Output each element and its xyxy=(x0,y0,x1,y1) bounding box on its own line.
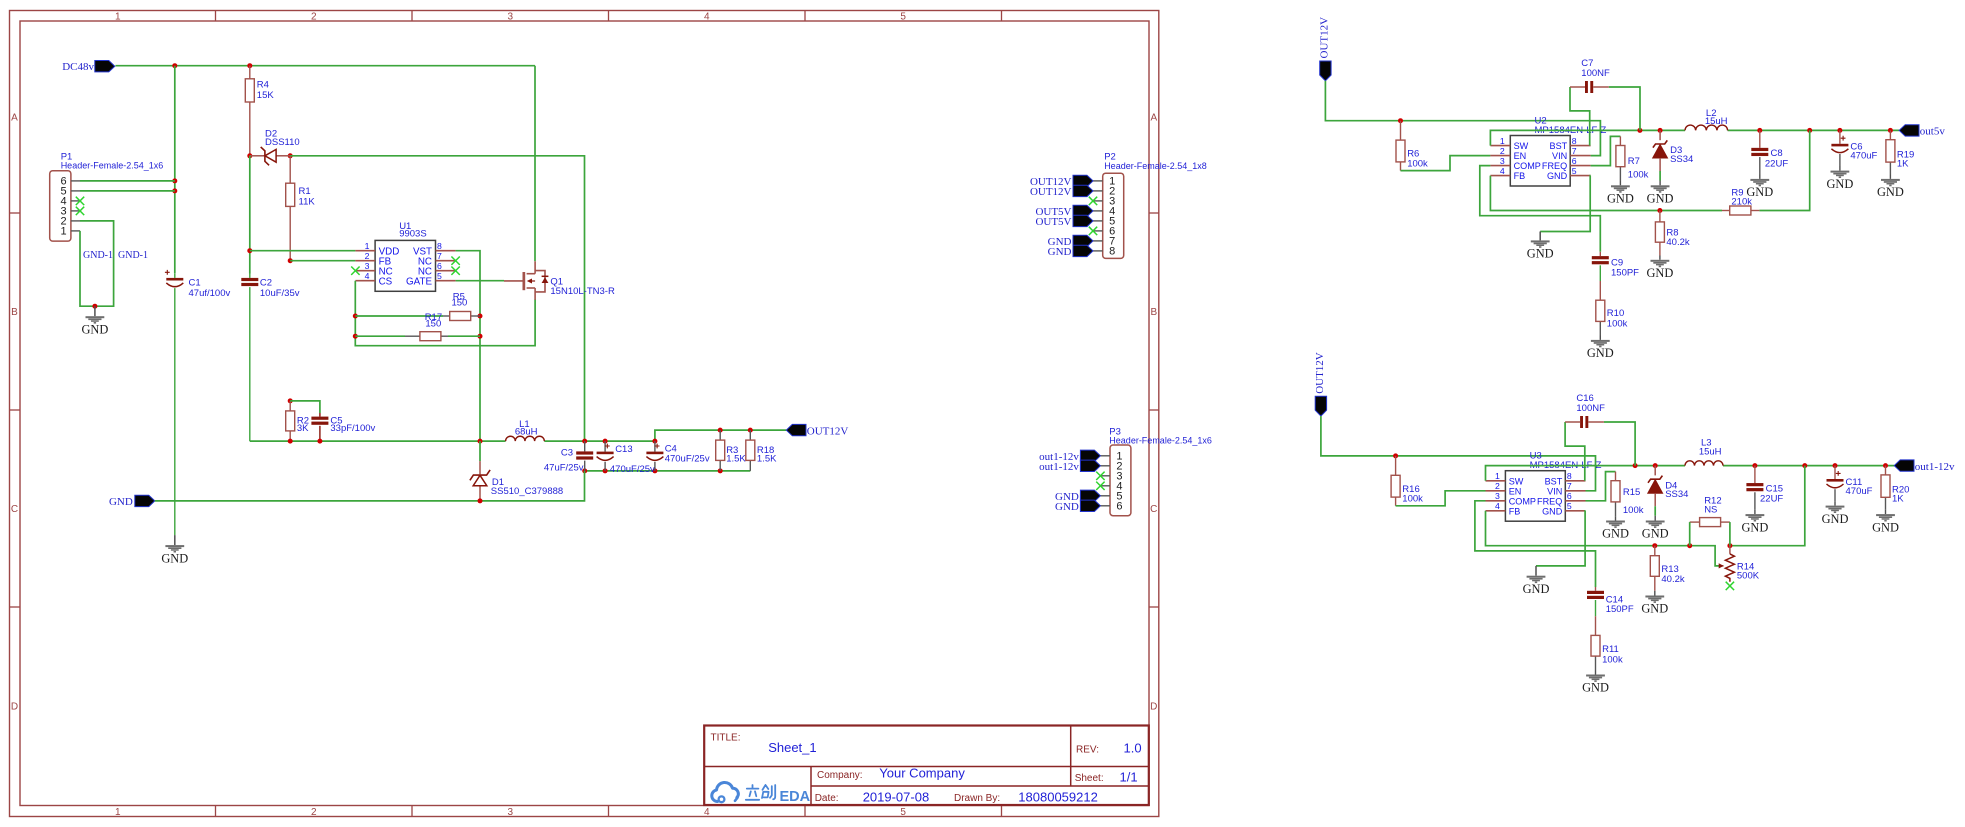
svg-text:DSS110: DSS110 xyxy=(265,137,300,148)
svg-text:18080059212: 18080059212 xyxy=(1018,789,1098,804)
junction R8 top / FB row xyxy=(1657,208,1662,213)
svg-text:47uf/100v: 47uf/100v xyxy=(189,288,231,299)
svg-text:33pF/100v: 33pF/100v xyxy=(330,423,375,434)
wire C5 top link xyxy=(290,401,320,413)
capacitor C3 xyxy=(544,441,593,473)
title block label Date: xyxy=(815,793,839,804)
wire U2 FB row xyxy=(1490,130,1809,210)
no-connect X on U1 pin 7 xyxy=(451,257,459,265)
net flag OUT12V pentagon xyxy=(786,424,806,435)
svg-text:GND: GND xyxy=(1607,192,1634,206)
svg-text:22UF: 22UF xyxy=(1760,494,1783,505)
svg-text:C2: C2 xyxy=(260,278,272,289)
net label out5v xyxy=(1920,126,1946,138)
ground under C15 xyxy=(1741,514,1768,534)
capacitor C11 xyxy=(1827,466,1873,502)
wire C7 left path to BST xyxy=(1570,87,1590,146)
wire C7 right path to SW xyxy=(1609,87,1640,130)
svg-text:1.5K: 1.5K xyxy=(757,454,777,465)
junction D1 anode / GND row xyxy=(478,498,483,503)
svg-text:500K: 500K xyxy=(1737,570,1760,581)
drawn-by value 18080059212 xyxy=(1018,789,1098,804)
svg-text:4: 4 xyxy=(1495,501,1500,511)
ground stem R7 xyxy=(1619,181,1621,185)
svg-text:1: 1 xyxy=(365,241,370,251)
svg-text:47uF/25v: 47uF/25v xyxy=(544,462,584,473)
svg-text:GND: GND xyxy=(1048,246,1072,258)
capacitor C4 xyxy=(646,441,709,471)
svg-text:GND: GND xyxy=(81,322,108,336)
wire U3 FB row right xyxy=(1730,466,1805,546)
ground stem R8 xyxy=(1659,256,1661,260)
wire C1 branch upper xyxy=(174,66,176,274)
svg-text:1: 1 xyxy=(1500,136,1505,146)
svg-text:R7: R7 xyxy=(1628,156,1640,167)
frame column ticks bottom xyxy=(216,806,1002,817)
net label OUT12V xyxy=(807,425,849,437)
resistor R12 (NS) xyxy=(1690,496,1730,527)
ground under C8 xyxy=(1746,179,1773,199)
junction VDD takeoff xyxy=(247,248,252,253)
resistor R6 xyxy=(1396,121,1428,171)
resistor R7 xyxy=(1616,136,1649,181)
net label GND on P3 xyxy=(1055,491,1079,503)
wire U3 COMP row xyxy=(1475,501,1596,587)
svg-text:SS34: SS34 xyxy=(1670,154,1693,165)
svg-text:A: A xyxy=(11,113,18,124)
diode D3 SS34 xyxy=(1659,130,1661,140)
svg-text:TITLE:: TITLE: xyxy=(711,732,741,743)
revision value 1.0 xyxy=(1124,741,1142,756)
svg-text:BST: BST xyxy=(1550,141,1568,151)
wire FREQ to R7 top xyxy=(1591,136,1621,165)
wire U2 GND pin to ground xyxy=(1540,176,1590,232)
connector P1 xyxy=(50,151,164,241)
sheet frame outer border xyxy=(10,11,1159,817)
capacitor C16 xyxy=(1576,393,1605,428)
svg-text:FREQ: FREQ xyxy=(1537,496,1562,506)
svg-text:GATE: GATE xyxy=(406,276,432,287)
junction feedback riser top xyxy=(1802,463,1807,468)
ground stem U3 pin5 xyxy=(1535,566,1537,576)
wire VDD to U1 pin1 xyxy=(250,250,356,252)
capacitor C5 xyxy=(311,413,375,441)
connector P3 xyxy=(1100,427,1211,516)
junction R18 top xyxy=(748,428,753,433)
svg-text:4: 4 xyxy=(704,12,710,23)
junction R3 top xyxy=(718,428,723,433)
junction DC48V / C1 branch xyxy=(172,63,177,68)
junction C8 top xyxy=(1757,128,1762,133)
svg-text:Date:: Date: xyxy=(815,793,839,804)
wire DC48V drop to Q1 drain xyxy=(534,66,536,262)
title block label Company: xyxy=(817,770,863,781)
svg-text:CS: CS xyxy=(379,276,393,287)
svg-text:Sheet:: Sheet: xyxy=(1075,773,1104,784)
title block label REV: xyxy=(1076,745,1099,756)
svg-text:150PF: 150PF xyxy=(1606,604,1634,615)
svg-text:GND-1: GND-1 xyxy=(83,250,113,261)
ground under C6 xyxy=(1826,171,1853,191)
svg-text:40.2k: 40.2k xyxy=(1661,574,1684,585)
svg-text:GND: GND xyxy=(1055,501,1079,513)
svg-text:out1-12v: out1-12v xyxy=(1039,461,1079,473)
ground under D4 xyxy=(1642,521,1669,541)
svg-text:100k: 100k xyxy=(1407,158,1428,169)
frame row ticks left xyxy=(10,213,21,607)
resistor R18 xyxy=(746,430,777,471)
wire R12 right riser xyxy=(1729,522,1731,546)
svg-text:150PF: 150PF xyxy=(1611,268,1639,279)
svg-text:210k: 210k xyxy=(1731,196,1752,207)
svg-text:Sheet_1: Sheet_1 xyxy=(768,740,816,755)
ground stem C8 xyxy=(1759,175,1761,179)
wire U3 GND pin to ground xyxy=(1536,511,1586,566)
svg-text:EDA: EDA xyxy=(780,789,811,805)
svg-text:100NF: 100NF xyxy=(1576,403,1605,414)
ground under U2 GND pin xyxy=(1527,240,1554,260)
net flag DC48v pentagon xyxy=(95,61,115,72)
svg-text:Header-Female-2.54_1x6: Header-Female-2.54_1x6 xyxy=(61,161,164,171)
net flag OUT5V on P2 pin xyxy=(1073,205,1093,216)
op-amp U3 MP1584EN body xyxy=(1486,451,1602,522)
ground under R15 xyxy=(1602,521,1629,541)
svg-text:SS34: SS34 xyxy=(1665,489,1688,500)
ground stem R15 xyxy=(1615,516,1617,520)
net label out1-12v on P3 xyxy=(1039,461,1079,473)
svg-text:R4: R4 xyxy=(257,79,269,90)
svg-text:22UF: 22UF xyxy=(1765,158,1788,169)
inductor L2 xyxy=(1685,108,1728,131)
ground under R8 xyxy=(1646,260,1673,280)
svg-text:FREQ: FREQ xyxy=(1542,161,1567,171)
capacitor C6 xyxy=(1831,130,1877,166)
svg-text:100k: 100k xyxy=(1628,170,1649,181)
title block label TITLE: xyxy=(711,732,741,743)
junction D2 cathode node xyxy=(288,153,293,158)
svg-text:GND: GND xyxy=(1826,177,1853,191)
svg-text:6: 6 xyxy=(1567,491,1572,501)
resistor R19 xyxy=(1886,130,1914,174)
ground under R13 xyxy=(1641,596,1668,616)
capacitor C7 xyxy=(1581,58,1610,93)
title block border xyxy=(704,726,1149,806)
svg-text:NS: NS xyxy=(1704,504,1717,515)
svg-text:15uH: 15uH xyxy=(1699,447,1722,458)
svg-text:DC48v: DC48v xyxy=(62,61,94,73)
wire R6 bottom to U2 EN xyxy=(1401,156,1491,171)
net label GND on P3 xyxy=(1055,501,1079,513)
svg-text:100k: 100k xyxy=(1607,318,1628,329)
svg-text:3: 3 xyxy=(508,12,514,23)
svg-text:1: 1 xyxy=(1495,471,1500,481)
wire C16 right path to SW xyxy=(1604,422,1635,466)
svg-text:C3: C3 xyxy=(561,448,573,459)
svg-text:150: 150 xyxy=(451,298,467,309)
diode D2 xyxy=(250,128,300,165)
svg-text:1: 1 xyxy=(115,12,121,23)
svg-text:Your Company: Your Company xyxy=(879,766,965,781)
connector P2 xyxy=(1093,152,1207,259)
svg-text:B: B xyxy=(11,307,18,318)
svg-text:4: 4 xyxy=(1500,166,1505,176)
wire GND row xyxy=(155,471,585,501)
svg-text:8: 8 xyxy=(1567,471,1572,481)
svg-text:GND: GND xyxy=(1872,520,1899,534)
diode D3 lower lead xyxy=(1659,158,1661,185)
junction R3 bottom xyxy=(718,468,723,473)
junction R12 left xyxy=(1687,543,1692,548)
svg-text:OUT12V: OUT12V xyxy=(1030,186,1072,198)
junction P1 ground node xyxy=(92,304,97,309)
svg-text:GND: GND xyxy=(1602,527,1629,541)
sheet frame inner border xyxy=(20,21,1149,806)
resistor R20 xyxy=(1881,466,1909,510)
svg-text:5: 5 xyxy=(1572,166,1577,176)
junction R12 right / R14 top xyxy=(1727,543,1732,548)
ground under R20 xyxy=(1872,514,1899,534)
svg-text:REV:: REV: xyxy=(1076,745,1099,756)
wire output row to OUT12V xyxy=(655,430,786,441)
svg-text:6: 6 xyxy=(1572,156,1577,166)
junction C15 top xyxy=(1752,463,1757,468)
svg-text:GND: GND xyxy=(1641,602,1668,616)
ground stem C6 xyxy=(1839,166,1841,171)
net flag OUT12V on P2 pin xyxy=(1073,175,1093,186)
wire U1 VST to gate-drive column xyxy=(456,251,480,441)
net flag GND on P2 pin xyxy=(1073,235,1093,246)
svg-text:SS510_C379888: SS510_C379888 xyxy=(491,486,563,497)
svg-text:EN: EN xyxy=(1514,151,1527,161)
no-connect X on P3 pin 3 xyxy=(1096,472,1104,480)
ground GND-1 symbol under P1 xyxy=(81,316,108,336)
svg-text:470uF: 470uF xyxy=(1846,486,1873,497)
svg-text:3: 3 xyxy=(508,807,514,818)
junction P1 pin6 wire xyxy=(172,178,177,183)
wire P1 pin6 to C1 line xyxy=(80,180,175,182)
ground symbol under C1 xyxy=(161,545,188,565)
net label OUT12V on P2 xyxy=(1030,186,1072,198)
resistor R11 xyxy=(1591,616,1623,670)
svg-text:Drawn By:: Drawn By: xyxy=(954,793,1000,804)
resistor R8 xyxy=(1655,211,1689,256)
net flag OUT5V on P2 pin xyxy=(1073,215,1093,226)
svg-text:1/1: 1/1 xyxy=(1120,769,1138,784)
junction C5 bottom xyxy=(317,439,322,444)
title block label Sheet: xyxy=(1075,773,1104,784)
diode D4 SS34 upper lead xyxy=(1654,466,1656,476)
junction R20 top xyxy=(1883,463,1888,468)
resistor R10 xyxy=(1596,281,1628,336)
junction DC48V / R4 branch xyxy=(247,63,252,68)
junction P1 pin5 wire xyxy=(172,188,177,193)
svg-text:GND: GND xyxy=(161,551,188,565)
junction R6 top xyxy=(1398,118,1403,123)
wire D2 cathode to switch-node column xyxy=(290,156,584,441)
potentiometer R14 500K xyxy=(1719,546,1760,582)
frame column labels top xyxy=(115,12,906,23)
svg-text:1.0: 1.0 xyxy=(1124,741,1142,756)
svg-text:GND: GND xyxy=(1741,520,1768,534)
svg-text:R10: R10 xyxy=(1607,308,1624,319)
svg-text:5: 5 xyxy=(900,12,906,23)
ground stem R19 xyxy=(1889,175,1891,179)
svg-text:470uF: 470uF xyxy=(1850,151,1877,162)
svg-text:C1: C1 xyxy=(189,278,201,289)
junction R17 right xyxy=(478,334,483,339)
svg-text:COMP: COMP xyxy=(1514,161,1541,171)
svg-text:GND: GND xyxy=(1877,185,1904,199)
ground stem P1 xyxy=(94,306,96,316)
no-connect X on U1 pin 6 xyxy=(451,267,459,275)
junction C13 bottom xyxy=(603,468,608,473)
svg-text:GND: GND xyxy=(1647,192,1674,206)
svg-text:Header-Female-2.54_1x8: Header-Female-2.54_1x8 xyxy=(1104,161,1207,171)
diode D4 lower lead xyxy=(1654,493,1656,520)
junction D3 top xyxy=(1658,128,1663,133)
svg-text:D: D xyxy=(11,702,18,713)
ground under R7 xyxy=(1607,185,1634,205)
wire U2 SW output row xyxy=(1490,130,1899,145)
svg-text:GND: GND xyxy=(1822,512,1849,526)
wire C2 column upper xyxy=(249,156,251,274)
capacitor C1 xyxy=(165,270,231,535)
net label OUT12V on P2 xyxy=(1030,176,1072,188)
svg-text:2019-07-08: 2019-07-08 xyxy=(863,789,930,804)
company value Your Company xyxy=(879,766,965,781)
resistor R9 xyxy=(1722,187,1759,215)
svg-text:2: 2 xyxy=(311,807,317,818)
no-connect X on P1 pin 3 xyxy=(76,207,84,215)
svg-text:470uF/25v: 470uF/25v xyxy=(610,464,655,475)
svg-text:8: 8 xyxy=(437,241,442,251)
svg-text:GND: GND xyxy=(1547,171,1568,181)
junction C11 top xyxy=(1833,463,1838,468)
resistor R2 xyxy=(286,401,309,441)
wire U3 SW output row xyxy=(1486,466,1895,481)
junction R16 top xyxy=(1393,453,1398,458)
svg-text:2: 2 xyxy=(311,12,317,23)
svg-text:5: 5 xyxy=(900,807,906,818)
wire OUT12V input rail U2 xyxy=(1325,81,1600,156)
svg-text:7: 7 xyxy=(1572,146,1577,156)
svg-text:7: 7 xyxy=(1567,481,1572,491)
junction CS / R5 left xyxy=(353,314,358,319)
ground stem U2 pin5 xyxy=(1539,232,1541,241)
ground stem R10 xyxy=(1599,336,1601,340)
op-amp U2 MP1584EN body xyxy=(1490,115,1606,186)
title block divider lines xyxy=(704,726,1149,806)
resistor R5 xyxy=(355,291,480,320)
svg-text:100NF: 100NF xyxy=(1581,68,1610,79)
junction D4 top xyxy=(1653,463,1658,468)
svg-text:FB: FB xyxy=(1514,171,1526,181)
net flag OUT12V vertical (U3 input) xyxy=(1314,352,1326,394)
no-connect X on U1 pin 3 xyxy=(351,267,359,275)
svg-text:C13: C13 xyxy=(615,444,632,455)
junction CS / R17 left xyxy=(353,334,358,339)
junction L1 input node xyxy=(478,439,483,444)
resistor R13 xyxy=(1650,546,1685,591)
capacitor C15 xyxy=(1746,466,1783,510)
junction R9 riser top xyxy=(1807,128,1812,133)
svg-text:2: 2 xyxy=(1500,146,1505,156)
svg-text:SW: SW xyxy=(1509,476,1524,486)
svg-text:A: A xyxy=(1150,113,1157,124)
svg-text:GND: GND xyxy=(1523,582,1550,596)
ground under D3 xyxy=(1647,185,1674,205)
svg-text:out5v: out5v xyxy=(1920,126,1946,138)
no-connect X on P1 pin 4 xyxy=(76,197,84,205)
resistor R17 xyxy=(355,312,480,341)
svg-text:40.2k: 40.2k xyxy=(1666,237,1689,248)
diode D1 xyxy=(470,441,563,501)
junction C7 right / SW row xyxy=(1637,128,1642,133)
net flag GND on P3 pin xyxy=(1080,500,1100,511)
net label GND-1 left xyxy=(83,250,113,261)
resistor R1 xyxy=(286,156,316,261)
net label out1-12v xyxy=(1915,461,1955,473)
svg-text:10uF/35v: 10uF/35v xyxy=(260,288,300,299)
net flag OUT12V pentagon (U2 input) xyxy=(1320,61,1331,81)
diode D3 symbol xyxy=(1653,140,1694,164)
wire R16 bottom to U3 EN xyxy=(1396,491,1486,506)
frame row labels left xyxy=(11,113,18,713)
junction R2 bottom xyxy=(288,439,293,444)
svg-text:470uF/25v: 470uF/25v xyxy=(665,454,710,465)
ground under R11 xyxy=(1582,675,1609,695)
svg-text:VIN: VIN xyxy=(1547,486,1562,496)
ground stem C11 xyxy=(1834,501,1836,505)
svg-text:100k: 100k xyxy=(1602,654,1623,665)
wire switching node row xyxy=(250,440,655,442)
svg-text:R1: R1 xyxy=(299,186,311,197)
diode D4 symbol xyxy=(1648,476,1689,500)
capacitor C13 xyxy=(597,441,655,475)
svg-text:1: 1 xyxy=(115,807,121,818)
svg-text:Company:: Company: xyxy=(817,770,863,781)
net flag out1-12v on P3 pin xyxy=(1080,450,1100,461)
ground stem C15 xyxy=(1754,510,1756,514)
wire U3 FB row left xyxy=(1486,511,1720,566)
frame row labels right xyxy=(1150,113,1157,713)
svg-text:Header-Female-2.54_1x6: Header-Female-2.54_1x6 xyxy=(1109,436,1212,446)
svg-text:68uH: 68uH xyxy=(515,427,538,438)
svg-text:COMP: COMP xyxy=(1509,496,1536,506)
svg-text:D: D xyxy=(1150,702,1157,713)
net flag OUT12V vertical (U2 input) xyxy=(1319,17,1331,59)
wire C16 left path to BST xyxy=(1565,422,1585,481)
svg-text:7: 7 xyxy=(437,251,442,261)
svg-text:100k: 100k xyxy=(1623,505,1644,516)
wire P1 pin2 to ground node xyxy=(80,221,114,306)
resistor R15 xyxy=(1611,472,1644,517)
frame column labels bottom xyxy=(115,807,906,818)
junction R13 top / FB row xyxy=(1652,543,1657,548)
svg-text:150: 150 xyxy=(425,319,441,330)
wire FREQ to R15 top xyxy=(1586,472,1616,501)
svg-text:8: 8 xyxy=(1109,246,1115,258)
title block label Drawn By: xyxy=(954,793,1000,804)
svg-text:4: 4 xyxy=(365,271,370,281)
ground under R10 xyxy=(1587,340,1614,360)
frame row ticks right xyxy=(1149,213,1159,607)
svg-text:GND: GND xyxy=(1542,506,1563,516)
junction C13 top xyxy=(603,439,608,444)
wire R12 left riser xyxy=(1689,522,1691,546)
ground under C11 xyxy=(1822,506,1849,526)
junction C6 top xyxy=(1837,128,1842,133)
